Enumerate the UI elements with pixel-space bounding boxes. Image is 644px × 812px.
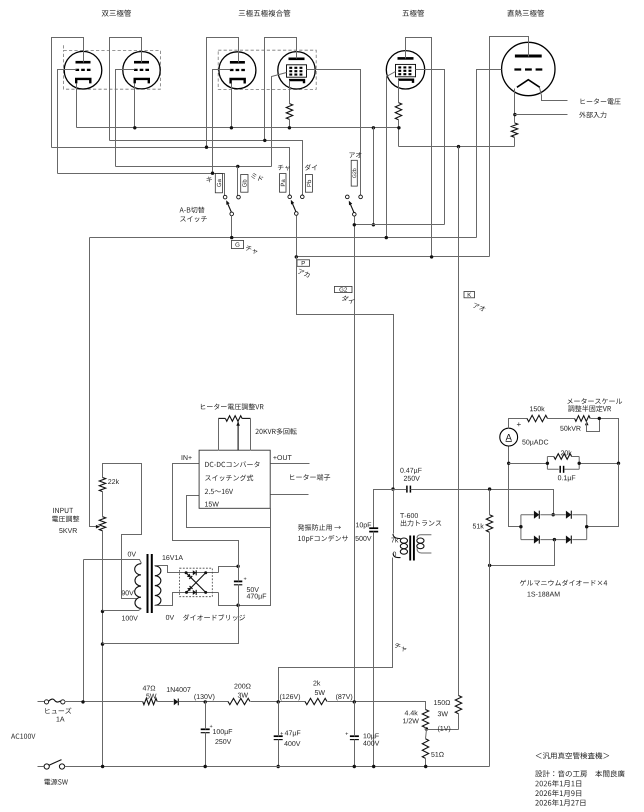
label 2k (313, 680, 320, 685)
potentiometer 20KVR zigzag (225, 416, 242, 422)
wire V1a plate to left rail (52, 38, 84, 148)
label dai g2 (342, 296, 355, 304)
wire V3 g2 lead (416, 70, 445, 225)
wire 51k lower lead (489, 533, 491, 767)
wire V2a plate loop (207, 38, 239, 148)
label 50kVR (560, 426, 580, 431)
label 50uADC (522, 440, 548, 446)
label 100uF (213, 729, 232, 735)
wire PT sec bot to bridge (155, 593, 219, 606)
label heater terminals (290, 474, 330, 480)
label heater voltage (581, 98, 621, 104)
transformer T600 core (409, 536, 411, 561)
arrow 20KVR wiper (236, 422, 240, 426)
fuse F1 (44, 700, 48, 704)
junction rail 10uF (353, 765, 356, 768)
switch SW-C pole (353, 213, 357, 217)
tube V2a envelope (219, 52, 256, 89)
germanium bridge frame (521, 515, 587, 540)
junction P net SW-B (295, 255, 298, 258)
transformer PT core (147, 554, 149, 613)
capacitor 10uF (350, 735, 359, 737)
wire T600 primary 0 lead (279, 558, 393, 702)
tag box G2 (335, 286, 353, 292)
wire V1b plate loop (110, 38, 142, 141)
label 150ohm watt (438, 711, 448, 716)
wire 10pF bottom drop (373, 532, 375, 767)
label 0.47uF (400, 468, 421, 474)
label date2 (535, 790, 581, 797)
wire K line y146 (399, 146, 515, 148)
label 4.4k (405, 710, 418, 715)
wire diode to 200ohm (179, 701, 229, 703)
wire meter bottom (509, 447, 521, 527)
wire PT 0V rail (83, 560, 85, 702)
tube V4 grid (514, 68, 542, 70)
wire x373 drop (373, 128, 375, 225)
label T600 7k (391, 537, 398, 542)
capacitor 47uF (274, 735, 283, 737)
wire PT 100V lead (103, 609, 142, 611)
wire bridge plus lead (219, 567, 239, 573)
junction grid bus B tap (236, 165, 239, 168)
inductor PT primary (135, 564, 141, 609)
label dcdc line3 (205, 489, 233, 494)
label meter scale1 (567, 398, 622, 404)
label 5KVR (59, 528, 77, 533)
label INPUT (53, 508, 73, 513)
label dcdc line2 (205, 475, 253, 481)
junction cathode V2a (230, 126, 233, 129)
label 470uF (247, 594, 267, 600)
label diode bridge (183, 614, 245, 621)
tag box K (464, 292, 475, 298)
potentiometer 20KVR body (218, 417, 225, 419)
label 500V (355, 536, 371, 541)
tube V1a plate (76, 61, 91, 64)
wire 100uF top lead (205, 702, 207, 730)
wire V1b grid lead (116, 70, 135, 167)
junction ge bottom (553, 538, 556, 541)
resistor 150k (527, 415, 548, 421)
label 100uF V (215, 739, 231, 744)
label 10pF (356, 522, 371, 528)
wire heater stub2 (271, 494, 309, 496)
junction rail 47uF (277, 765, 280, 768)
wire x618 drop (587, 464, 619, 527)
junction 126V (277, 700, 280, 703)
label T600 0 (393, 552, 396, 557)
label designer (535, 770, 624, 777)
wire 47ohm to diode (158, 701, 174, 703)
junction bridge BR (204, 591, 207, 594)
label 47ohm (143, 686, 156, 691)
socket dashed box 1 (64, 50, 161, 89)
label PT 90V (122, 590, 134, 595)
wire SW-C pole drop G2 net (354, 217, 356, 702)
junction plate bus B V2b (263, 139, 266, 142)
tube V4 plate (515, 55, 542, 58)
label DHT title (507, 10, 544, 17)
junction bridge TR (204, 571, 207, 574)
tube V1b envelope (123, 51, 160, 88)
junction 100V tap (101, 610, 104, 613)
label AC100V (11, 734, 35, 739)
resistor 51ohm (422, 739, 428, 759)
tube V3 grid box (396, 64, 416, 76)
diode bridge diagonal diode D3 (187, 574, 192, 579)
resistor 4.4k (422, 710, 428, 728)
label date3 (535, 799, 585, 806)
wire 10uF top lead (354, 702, 356, 737)
wire V4 plate loop (490, 37, 529, 257)
junction ge right (585, 525, 588, 528)
wire AC input top (38, 701, 45, 703)
switch SW-A contact b (237, 195, 241, 199)
tag box G (232, 240, 244, 248)
wire 100uF bot lead (205, 733, 207, 767)
resistor 51k (486, 515, 492, 533)
wire bottom rail (65, 766, 490, 768)
tube V3 plate (398, 57, 414, 60)
wire V4 filament res lower lead (514, 138, 516, 147)
wire 50kVR out (591, 419, 619, 464)
label T-600 (400, 513, 418, 518)
diode Ge2 (566, 511, 571, 519)
junction V4 filament ext (513, 113, 516, 116)
capacitor 0.47uF (406, 486, 408, 493)
wire plate bus B y140 (110, 141, 303, 196)
wire 22k top jog (103, 464, 142, 599)
tube V2a plate (230, 61, 245, 64)
wire cap047 to bridge (411, 490, 554, 515)
wire P node to cap (394, 489, 407, 491)
wire plate bus A y147 (52, 148, 290, 196)
arrow 50kVR wiper (585, 421, 589, 425)
tube V4 envelope (502, 42, 555, 95)
network 20k parallel 0.1uF frame (547, 457, 579, 470)
tag box Gb (241, 175, 248, 193)
wire AC input bottom (38, 766, 44, 768)
wire cathode bus y128 (77, 127, 399, 129)
wire G net y237 (90, 237, 477, 239)
tag box Ga (215, 173, 222, 192)
label 130V (194, 694, 214, 701)
label date1 (535, 780, 581, 787)
wire K net drop (458, 147, 460, 696)
label ki (207, 177, 212, 183)
diode bridge D2 bottom (193, 590, 196, 595)
wire ge bottom drop (490, 540, 555, 566)
junction 130V (204, 700, 207, 703)
wire bridge minus lead (219, 509, 271, 606)
wire V2b plate loop (265, 38, 297, 141)
wire cap470 bot lead (238, 585, 240, 606)
tube V2b grids g1 g2 g3 (289, 67, 303, 69)
wire G2 net y225 (355, 224, 445, 226)
wire V2b cathode lower lead (289, 120, 291, 128)
wire Gb drop (237, 167, 239, 196)
label PT 16V1A (163, 555, 183, 560)
label 2k watt (315, 690, 325, 695)
resistor 200ohm (228, 698, 250, 704)
label 1N4007 (167, 687, 191, 692)
wire T600 sec bottom (417, 548, 431, 553)
label cha t600 (395, 643, 407, 651)
wire 2k to 4k4 (328, 702, 426, 710)
label power SW (44, 779, 68, 785)
junction K net (457, 145, 460, 148)
capacitor 0.1uF (559, 466, 561, 473)
wire 10uF bot lead (354, 740, 356, 767)
junction 0V rail (81, 700, 84, 703)
wire grid bus A y173 (58, 174, 225, 196)
switch power SW (44, 764, 49, 769)
diode bridge diagonals (186, 573, 206, 593)
junction P node (391, 487, 394, 490)
tag box Pa (280, 174, 287, 193)
label 47uF V (284, 741, 300, 746)
diode 1N4007 (174, 699, 179, 706)
switch SW-B contact b (301, 195, 305, 199)
diode Ge4 (566, 536, 571, 544)
junction cathode x373 (372, 126, 375, 129)
wire 200ohm to 2k (251, 701, 306, 703)
arrow input wiper (96, 525, 100, 529)
potentiometer 5KVR body (99, 517, 105, 531)
junction 87V (353, 700, 356, 703)
junction cathode V1b (133, 126, 136, 129)
tube V3 grids g1 g2 g3 (398, 66, 412, 68)
wire 4k4 to dot (426, 728, 459, 730)
wire V2a grid lead (213, 70, 231, 174)
junction bridge TL (185, 571, 188, 574)
wire heater-ext stub (515, 114, 568, 116)
label cha a (278, 165, 290, 171)
junction plate bus A V2a (205, 146, 208, 149)
tube V2b grid box (287, 65, 307, 77)
junction 20k left (546, 462, 549, 465)
wire V3 cathode upper lead (398, 80, 400, 103)
resistor 47ohm (143, 698, 158, 704)
switch SW-B lever (292, 202, 296, 212)
label dcdc line1 (205, 461, 259, 467)
label A-B switch line1 (180, 207, 205, 213)
label output transformer (401, 520, 442, 526)
resistor V2b cathode (286, 104, 292, 120)
label 1S-188AM (528, 592, 560, 597)
junction shunt right (617, 462, 620, 465)
wire V2a cathode drop (231, 84, 233, 128)
wire V4 grid lead (477, 70, 502, 238)
tag box Pb (305, 175, 312, 193)
wire minus to y644 (103, 606, 239, 644)
label 10pF condenser (298, 535, 348, 543)
label 10uF V (363, 741, 379, 746)
wire 150k to 50kVR (548, 418, 575, 420)
junction ge left (519, 525, 522, 528)
label 1A (57, 717, 65, 722)
wire T600 primary entry (393, 534, 401, 558)
wire grid bus B y166 (116, 166, 272, 168)
junction x373 G2bus (372, 223, 375, 226)
tube V2b cathode (289, 80, 304, 83)
label dcdc line4 (205, 502, 219, 507)
label PT 100V (122, 616, 138, 621)
wire 47uF top lead (278, 702, 280, 737)
wire shunt line2 (580, 463, 619, 465)
wire 47uF bot lead (278, 740, 280, 767)
switch SW-C contact a (346, 195, 350, 199)
tube V1b cathode (135, 79, 149, 84)
tube V4 filament (517, 80, 540, 88)
potentiometer 50kVR (575, 416, 591, 422)
diode bridge D1 top (193, 570, 196, 575)
capacitor 470uF (234, 580, 242, 582)
inductor T600 secondary (417, 538, 424, 543)
junction P net V3 plate (430, 255, 433, 258)
label 10uF (364, 733, 379, 739)
wire V3 cathode lower lead (398, 120, 400, 147)
switch SW-A pole (230, 212, 234, 216)
label heater VR (201, 403, 264, 409)
switch SW-C contact b (359, 195, 363, 199)
label title block (536, 752, 609, 759)
wire IN- path (187, 496, 271, 528)
label A-B switch line2 (180, 216, 207, 222)
label 0.1uF (558, 475, 575, 481)
resistor V4 filament (511, 123, 517, 137)
capacitor 10pF (369, 527, 378, 529)
meter M1 ammeter (500, 428, 518, 446)
wire V1a cathode drop (76, 84, 78, 128)
wire P to 10pF (374, 490, 394, 529)
wire V2b cathode upper lead (289, 81, 291, 104)
junction ge top (552, 513, 555, 516)
label 20k (561, 450, 572, 455)
tube V1a envelope (64, 51, 102, 89)
junction 51k mid (488, 564, 491, 567)
label dai a (305, 164, 317, 170)
wire V2b g1 lead (272, 73, 287, 167)
label 4.4k watt (403, 718, 419, 723)
wire 150ohm bottom (458, 714, 460, 730)
junction cathode V3res (397, 126, 400, 129)
junction 51k top (488, 487, 491, 490)
label mido (251, 173, 263, 181)
junction 50kVR wiper (598, 417, 601, 420)
inductor T600 primary (400, 538, 407, 543)
label 1V (438, 726, 450, 733)
wire IN+ path (173, 464, 239, 567)
label ao k (473, 303, 485, 312)
wire 20KVR legs (218, 419, 220, 451)
label 150k (530, 406, 545, 411)
diode bridge dashed box (180, 568, 213, 597)
tube V3 cathode (398, 80, 413, 83)
junction cathode V2b (288, 126, 291, 129)
wire left rail x89 (90, 238, 98, 527)
label osc prevention (298, 524, 341, 530)
label ao a (349, 152, 361, 158)
junction G net SW-A (230, 236, 233, 239)
wire V2b g2 lead (307, 70, 361, 196)
junction x102 y644 (101, 642, 104, 645)
diode bridge diagonal diode D4 (187, 586, 192, 591)
wire P net y257 (297, 256, 490, 258)
socket dashed box 2 (218, 50, 316, 89)
label 20KVR (255, 428, 296, 434)
label fuse (45, 708, 71, 714)
wire cap470 top lead (238, 567, 240, 582)
label 50V (247, 587, 259, 592)
switch SW-A lever (227, 202, 231, 212)
wire SW-A pole drop (231, 216, 233, 238)
label 126V (280, 694, 300, 701)
label 200ohm (234, 684, 250, 689)
label external input (579, 112, 606, 118)
switch SW-A contact a (223, 195, 227, 199)
tube V2b plate (289, 57, 305, 60)
label pentode title (402, 10, 424, 17)
label input adj (52, 516, 79, 522)
wire T600 sec top (417, 535, 431, 538)
wire V1b cathode drop (134, 84, 136, 128)
label 150ohm (434, 700, 450, 705)
wire PT 0V lead (84, 560, 142, 564)
junction 20k right (578, 462, 581, 465)
junction grid bus A V2a (211, 172, 214, 175)
tube V1b plate (134, 61, 149, 64)
junction G net V3g1 (385, 236, 388, 239)
label aka p (298, 269, 310, 278)
wire 22k to pot (102, 492, 104, 517)
junction meter minus (507, 462, 510, 465)
tag box G2b (351, 160, 357, 186)
wire P net drop (297, 257, 394, 490)
diode Ge3 (534, 536, 539, 544)
resistor 150ohm (455, 696, 461, 714)
wire 51ohm top lead (426, 730, 427, 739)
resistor 22k (99, 478, 105, 492)
label IN+ (182, 455, 192, 460)
label meter plus (517, 422, 521, 426)
resistor 2k (305, 698, 327, 704)
tube V1b grid (134, 69, 149, 71)
tag box P (297, 260, 310, 267)
switch SW-B contact a (288, 195, 292, 199)
switch SW-B pole (295, 212, 299, 216)
label PT sec 0V (166, 615, 174, 620)
wire P to T600 primary (393, 490, 395, 534)
wire 50kVR wiper loop (587, 419, 600, 432)
resistor V3 cathode (395, 103, 401, 120)
wire shunt line (509, 463, 548, 465)
tube V2a grid (230, 69, 245, 71)
label dual-triode title (102, 10, 131, 17)
diode Ge1 (534, 511, 539, 519)
junction bridge BL (185, 591, 188, 594)
wire +OUT stub (271, 463, 310, 465)
wire V3 g1 lead (387, 72, 396, 238)
wire V4 filament right lead (540, 88, 568, 101)
label 250V (404, 476, 420, 481)
label 51ohm (431, 752, 443, 757)
label meter scale2 (568, 405, 611, 411)
label germanium diodes (520, 580, 607, 586)
junction rail 100uF (204, 765, 207, 768)
wire V1a grid lead (58, 70, 77, 174)
